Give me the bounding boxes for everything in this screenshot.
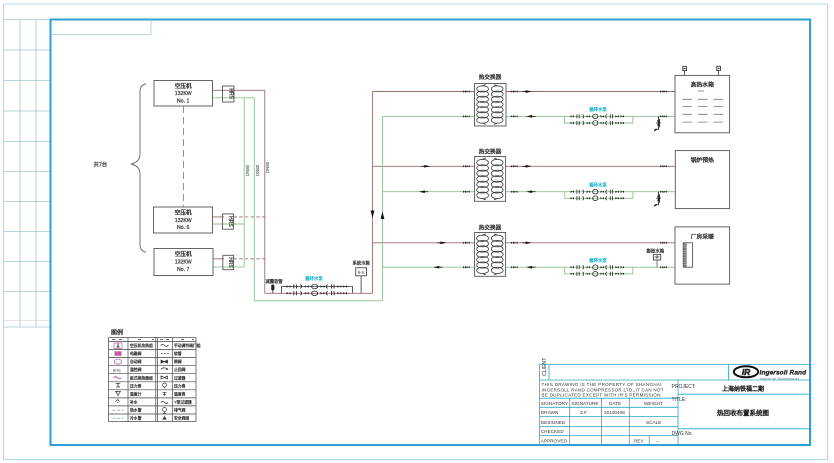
valve pair HX3 left red [463,242,470,245]
plant heating 厂房采暖 [675,227,730,284]
svg-text:SIGNATURE: SIGNATURE [572,401,599,406]
riser arrow up on green main riser [381,212,385,220]
system water tank stem [360,276,362,294]
svg-text:自动阀: 自动阀 [130,359,142,364]
hot water tank 高热水箱 [675,66,730,133]
valve pair plant inlet green [660,266,667,269]
HEAT EXCHANGERS [475,73,507,276]
svg-text:INGERSOLL RAND COMPRESSOR LTD,: INGERSOLL RAND COMPRESSOR LTD,,IT CAN NO… [542,387,664,392]
svg-text:20100408: 20100408 [604,410,625,415]
svg-text:HRS: HRS [227,257,233,268]
svg-text:循环水泵: 循环水泵 [589,106,607,113]
compressor No.7 [154,249,213,276]
svg-text:132KW: 132KW [175,218,192,224]
pump run bottom upper [287,284,347,289]
valve pair HX1 right red [511,90,518,93]
top-left strip box [51,20,152,35]
valve pair HX1 right green [511,115,518,118]
svg-text:DN80: DN80 [265,161,270,173]
brace for 7 units [131,84,146,252]
svg-text:HRS: HRS [227,216,233,227]
svg-text:CLIENT: CLIENT [542,357,548,376]
svg-text:温度表: 温度表 [174,391,186,396]
svg-text:No. 1: No. 1 [177,99,190,105]
RIGHT SIDE CONSUMERS [675,66,730,284]
arrow HX3 right red [522,241,532,244]
svg-text:DRAWN: DRAWN [541,410,559,415]
svg-text:温度计: 温度计 [130,391,142,396]
svg-text:系统水箱: 系统水箱 [353,260,371,267]
svg-text:THIS DRAWING IS THE PROPERTY O: THIS DRAWING IS THE PROPERTY OF SHANGHAI [542,382,662,387]
wire: red branch to HX3 and plant heating [373,242,684,244]
arrow HX3 left red [437,241,447,244]
valve pair HX3 right green [511,266,518,269]
pump run bottom lower [287,291,347,296]
svg-text:APPROVED: APPROVED [541,439,568,444]
TITLE BLOCK [540,357,810,445]
svg-text:压力表: 压力表 [130,383,142,388]
tank vent caps [683,66,687,70]
wire: green bypass loop row3 [565,267,633,274]
pump run row2 bypass [571,196,624,201]
svg-text:安全阀组: 安全阀组 [174,416,189,421]
pump run row1 bypass [571,121,624,126]
svg-text:热交换器: 热交换器 [479,223,502,231]
riser arrow down on red main riser [371,211,375,219]
valve pair HX2 left green [463,190,470,193]
COMPRESSORS [94,81,235,276]
pump run row3 bypass [571,272,624,277]
svg-text:冷水管: 冷水管 [130,416,142,421]
svg-text:DWG No.: DWG No. [672,431,693,437]
compressor No.6 [154,207,213,233]
expansion tank stem row3 [656,260,658,267]
svg-text:SCALE: SCALE [646,420,661,425]
svg-text:闸阀: 闸阀 [174,359,182,364]
pump bypass upper line [281,287,352,294]
wire: red branch to HX1 and tank [373,91,676,93]
wire: green line HRS6 [213,223,245,225]
svg-text:HRS: HRS [227,88,233,99]
svg-text:减震软管: 减震软管 [266,278,284,285]
Ingersoll Rand logo [734,366,807,380]
svg-text:Industrial Technologies: Industrial Technologies [760,377,800,381]
HRS unit 1 [223,86,235,102]
arrow HX2 right green [526,190,536,193]
svg-text:热回收布置系统图: 热回收布置系统图 [717,408,769,417]
svg-text:温控阀: 温控阀 [130,367,142,372]
svg-text:CHECKED: CHECKED [541,429,565,434]
valve pair tank inlet green [660,115,667,118]
legend row texts left [130,343,153,421]
left margin grid [4,20,51,328]
arrow HX3 right green [526,266,536,269]
wire: green bottom run [254,300,382,302]
svg-text:[EH]: [EH] [113,368,120,372]
wire: green branch to HX3 and plant heating [383,266,684,268]
svg-text:共7台: 共7台 [94,161,108,169]
svg-text:空压机: 空压机 [175,250,192,258]
property text [542,382,664,398]
valve pair boiler inlet green [660,190,667,193]
svg-text:132KW: 132KW [175,260,192,266]
tank level dashes [683,99,724,122]
wire: red dashed line HRS6 [213,216,225,218]
wire: green branch to HX1 and tank [383,115,676,117]
valve pair HX2 right green [511,190,518,193]
wire: green return line HRS1 [213,97,255,99]
legend symbols right column [161,344,169,419]
svg-text:图例: 图例 [111,329,123,337]
system water tank box [356,268,367,276]
arrow HX3 left green [433,266,443,269]
drain assembly row2 [654,192,661,207]
svg-text:No. 7: No. 7 [177,267,190,273]
svg-text:补水: 补水 [358,270,366,275]
valve pair plant inlet red [660,242,667,245]
title block frame lines [540,365,810,446]
legend symbols left column [113,343,124,418]
wire: green line HRS7 [213,266,245,268]
svg-text:热水管: 热水管 [130,408,142,413]
svg-text:高热水箱: 高热水箱 [691,81,714,89]
pump run row3 main [571,265,624,270]
arrow HX2 left red [421,165,431,168]
valve pair HX3 left green [463,266,470,269]
valve pair boiler inlet red [660,165,667,168]
expansion tank box row3 [653,254,660,260]
svg-text:TITLE:: TITLE: [672,397,687,403]
svg-text:SIGNATORY: SIGNATORY [541,401,569,406]
vibration hose symbol [271,285,274,291]
svg-text:板式换热器组: 板式换热器组 [130,375,153,380]
arrow HX1 right green [526,115,536,118]
svg-text:锅炉预热: 锅炉预热 [691,156,714,164]
legend header marks [112,339,194,341]
svg-text:循环水泵: 循环水泵 [589,181,607,188]
wire: green branch to HX2 and boiler [383,191,676,193]
arrow HX1 right red [522,90,532,93]
svg-text:Y型过滤器: Y型过滤器 [174,399,192,404]
arrow HX2 right red [522,165,532,168]
VALVES AND ARROWS on branch lines [371,90,667,268]
tank vent stems [685,71,719,76]
wire: red hot-water line from HRS1 to collector riser [213,89,265,91]
wire: green bypass loop row2 [565,192,633,199]
compressor No.1 [154,81,213,107]
heat exchanger 2 [475,147,506,201]
right column labels [672,384,696,437]
svg-text:厂房采暖: 厂房采暖 [691,233,714,241]
pump run row1 main [571,114,624,119]
BOTTOM PUMP STATION [266,260,371,296]
svg-text:No. 6: No. 6 [177,225,190,231]
BYPASS PUMP GROUPS on green lines [571,106,665,276]
svg-text:PROJECT:: PROJECT: [672,384,696,390]
valve pair HX1 left red [463,90,470,93]
boiler preheat 锅炉预热 [675,151,729,209]
heat exchanger 3 [475,223,506,276]
HRS unit 6 [223,214,234,229]
svg-text:WEIGHT: WEIGHT [644,401,663,406]
svg-text:DESIGNED: DESIGNED [541,420,566,425]
wire: green riser B [253,98,255,301]
svg-text:DN80: DN80 [245,164,250,176]
svg-text:膨胀水箱: 膨胀水箱 [647,248,665,255]
valve pair HX2 right red [511,165,518,168]
svg-text:上海纳铁福二期: 上海纳铁福二期 [722,385,764,393]
svg-text:电磁阀: 电磁阀 [130,351,142,356]
svg-text:热交换器: 热交换器 [479,147,502,155]
svg-text:DATE: DATE [609,401,621,406]
wire: green bypass loop row1 [565,116,633,123]
svg-text:DN80: DN80 [255,164,260,176]
svg-text:空压机余热组: 空压机余热组 [130,343,153,348]
centerline between compressors [183,106,185,207]
svg-text:软管: 软管 [174,351,182,356]
legend table grid [109,338,197,422]
svg-text:循环水泵: 循环水泵 [305,275,323,282]
svg-text:压力表: 压力表 [174,383,186,388]
svg-text:Z.F.: Z.F. [580,410,588,415]
drain assembly row1 [654,116,661,131]
svg-text:IR: IR [742,367,750,377]
pump run row2 main [571,189,624,194]
svg-text:热交换器: 热交换器 [479,73,502,81]
wire: red bottom run to main riser [265,292,373,294]
svg-text:132KW: 132KW [175,91,192,97]
svg-text:循环水泵: 循环水泵 [589,257,607,264]
svg-text:止回阀: 止回阀 [174,367,186,372]
signature table text [541,401,663,444]
svg-text:Ingersoll Rand: Ingersoll Rand [760,370,808,377]
valve pair HX1 left green [463,115,470,118]
svg-text:排气阀: 排气阀 [174,408,186,413]
wire: green riser A [243,98,245,267]
radiator symbol [683,243,692,267]
wire: green main riser [382,116,384,300]
svg-text:空压机: 空压机 [175,82,192,90]
svg-text:空压机: 空压机 [175,208,192,216]
wire: red main riser [372,92,374,294]
svg-text:BE DUPLICATED EXCEPT WITH IR'S: BE DUPLICATED EXCEPT WITH IR'S PERMISSIO… [542,393,661,398]
valve pair tank inlet red [660,90,667,93]
heat exchanger 1 [475,73,507,126]
DN80 pipe labels (rotated) [245,161,270,176]
wire: red branch to HX2 and boiler [373,165,676,167]
svg-text:REV.: REV. [634,439,645,444]
HRS unit 7 [223,255,234,269]
wire: red dashed line HRS7 [213,258,225,260]
faint grid row line [4,320,51,322]
valve pair HX3 right red [511,242,518,245]
svg-text:手动调节阀门组: 手动调节阀门组 [174,343,201,348]
PIPES [213,90,684,300]
svg-text:--: -- [656,439,660,444]
arrow HX2 left green [419,190,429,193]
svg-text:补水: 补水 [130,399,138,404]
legend row texts right [174,343,201,421]
wire: red collector riser [264,90,266,293]
LEGEND [109,329,201,422]
svg-text:过滤器: 过滤器 [174,375,186,380]
valve pair HX2 left red [463,165,470,168]
